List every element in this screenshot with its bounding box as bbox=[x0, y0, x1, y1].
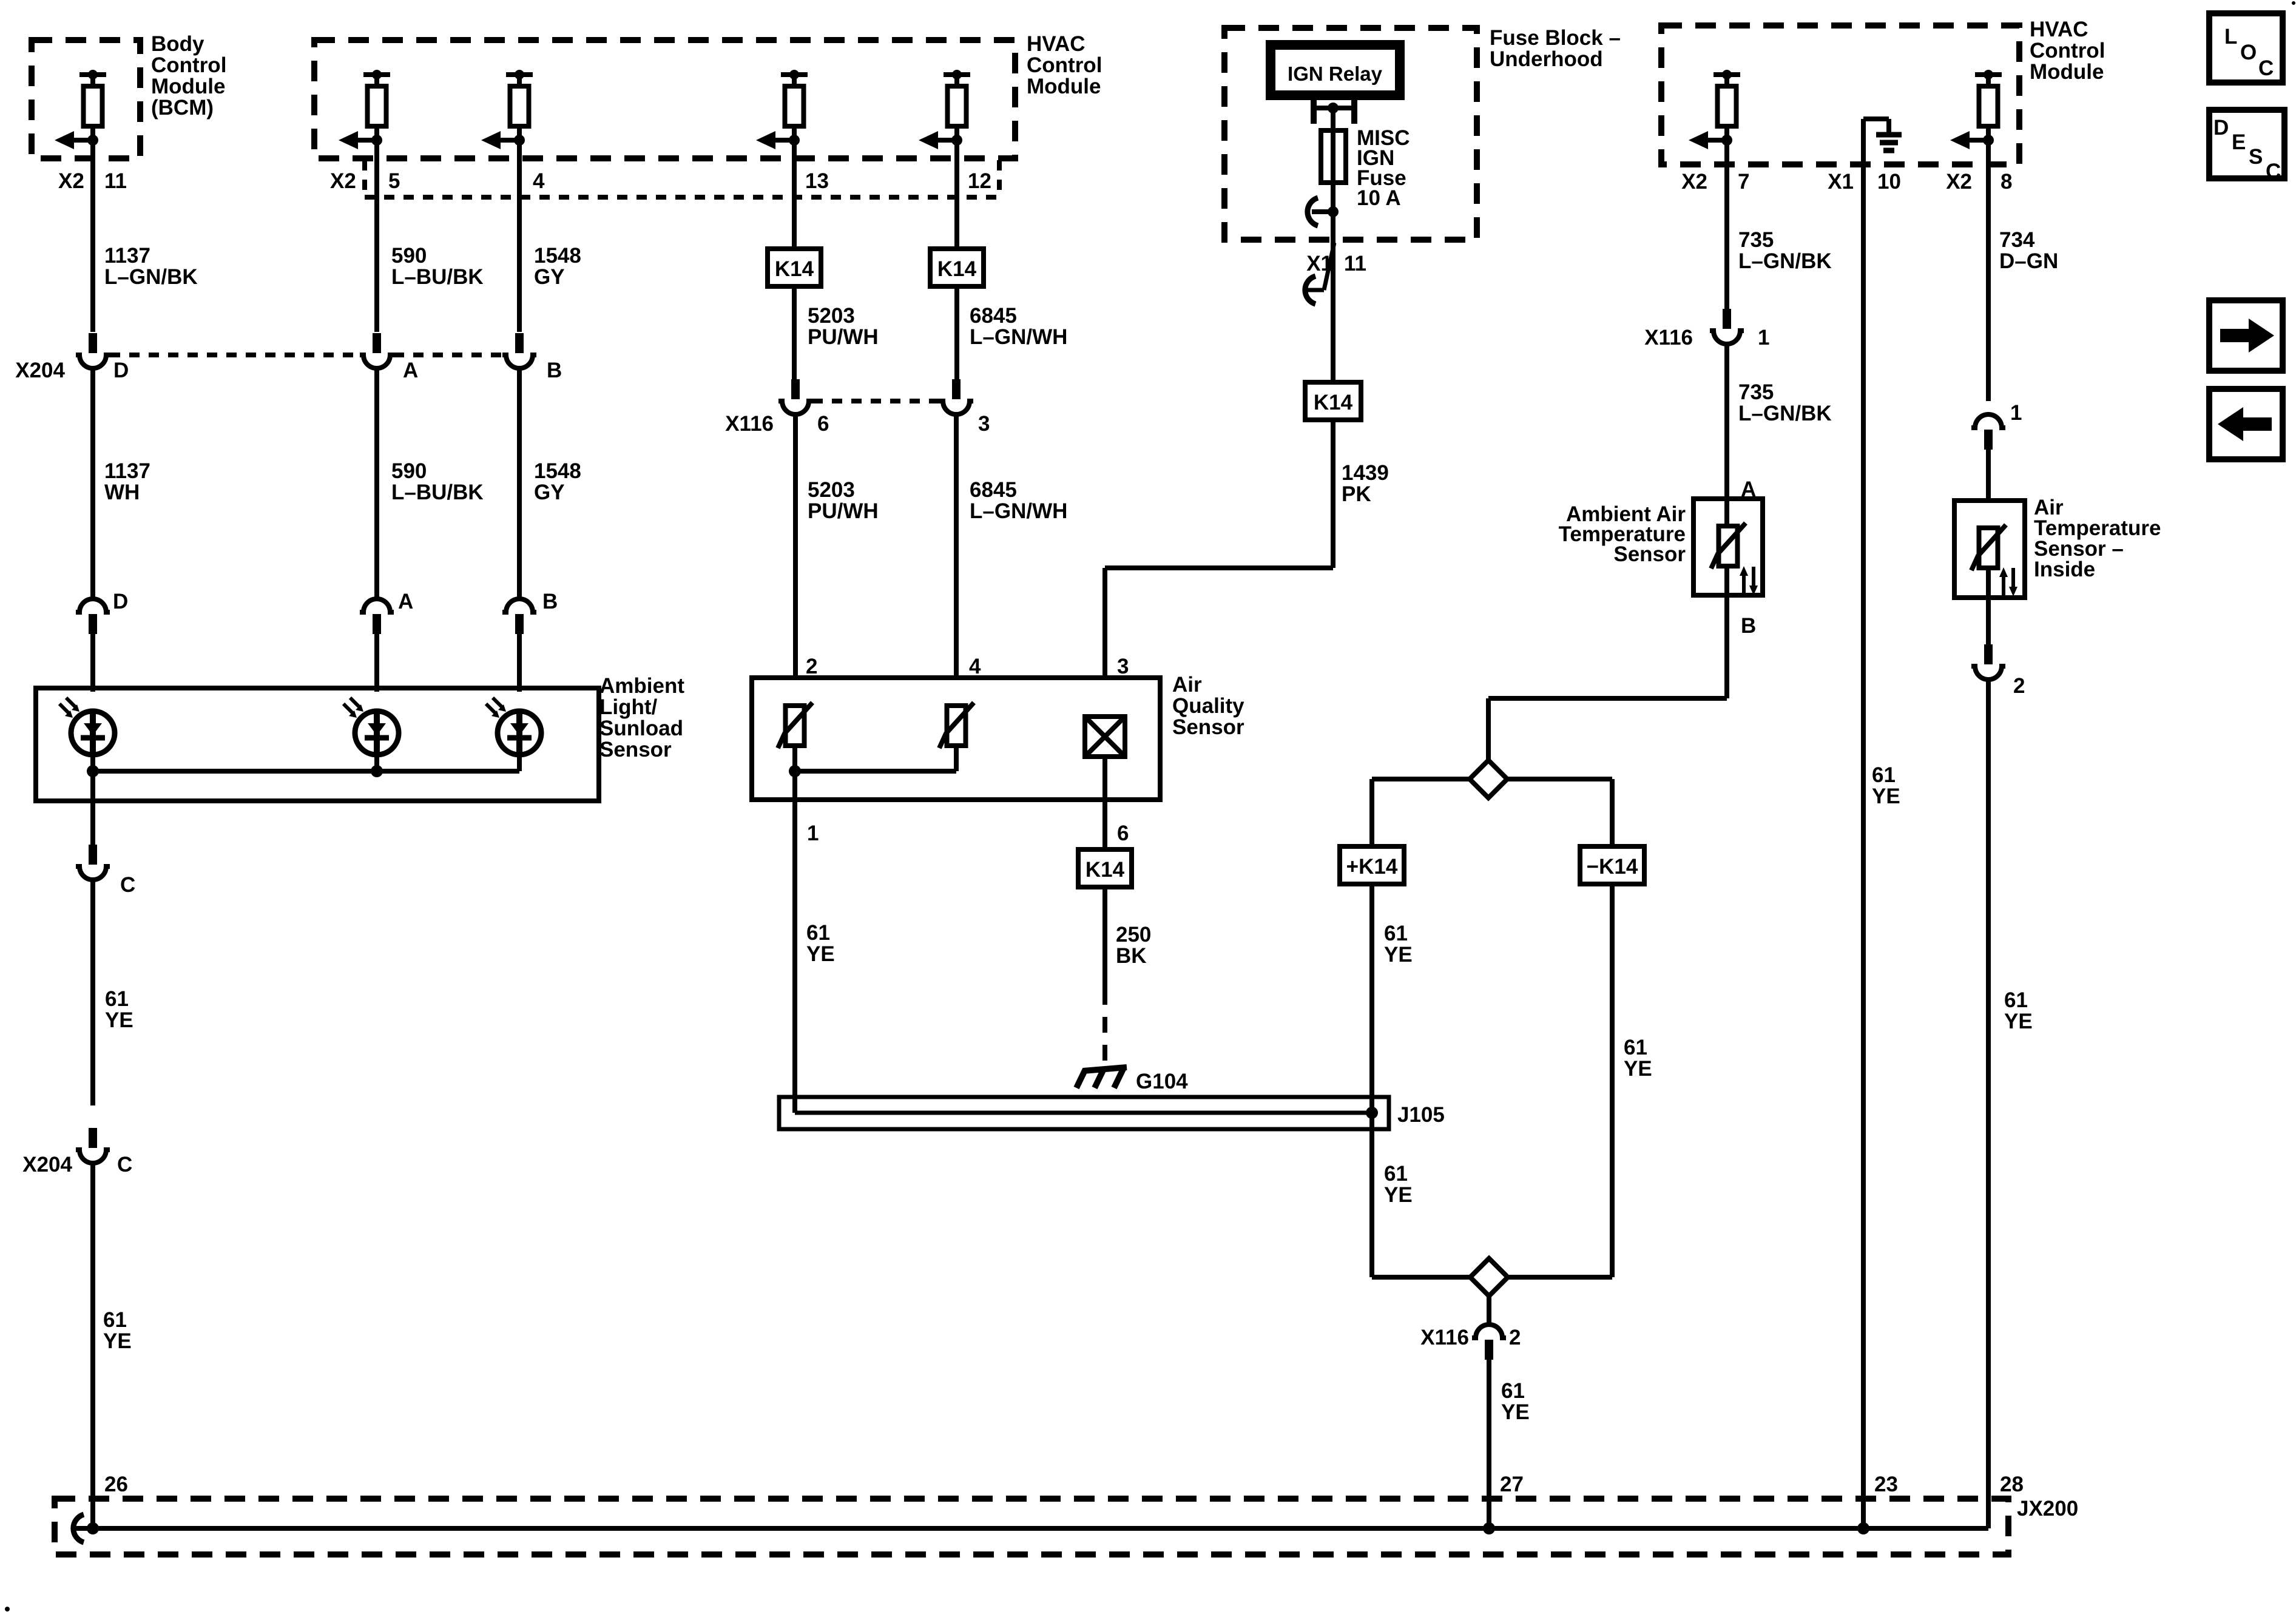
svg-text:S: S bbox=[2249, 145, 2263, 169]
svg-text:D: D bbox=[113, 590, 128, 613]
svg-text:C: C bbox=[120, 873, 135, 897]
svg-text:X2: X2 bbox=[1681, 170, 1707, 194]
svg-text:L: L bbox=[2224, 25, 2237, 49]
svg-text:26: 26 bbox=[104, 1473, 128, 1496]
svg-text:HVAC: HVAC bbox=[2030, 18, 2088, 41]
svg-text:Body: Body bbox=[151, 32, 204, 56]
svg-text:+K14: +K14 bbox=[1346, 855, 1398, 879]
svg-text:8: 8 bbox=[2001, 170, 2012, 194]
svg-text:C: C bbox=[2258, 56, 2274, 80]
svg-text:10: 10 bbox=[1877, 170, 1901, 194]
svg-text:4: 4 bbox=[533, 169, 545, 193]
svg-text:61: 61 bbox=[105, 987, 129, 1011]
svg-text:10 A: 10 A bbox=[1357, 186, 1401, 210]
svg-text:YE: YE bbox=[1872, 785, 1900, 808]
svg-text:X204: X204 bbox=[22, 1153, 72, 1176]
svg-text:L–BU/BK: L–BU/BK bbox=[391, 481, 484, 504]
svg-text:X2: X2 bbox=[330, 169, 356, 193]
svg-text:X116: X116 bbox=[1420, 1326, 1469, 1349]
svg-text:D: D bbox=[2213, 116, 2229, 140]
svg-text:Control: Control bbox=[1027, 53, 1102, 77]
svg-text:1137: 1137 bbox=[104, 244, 150, 268]
svg-text:2: 2 bbox=[1509, 1326, 1521, 1349]
svg-text:Air: Air bbox=[1172, 673, 1202, 697]
svg-text:3: 3 bbox=[978, 412, 990, 436]
svg-text:E: E bbox=[2232, 130, 2246, 154]
svg-text:2: 2 bbox=[806, 655, 817, 678]
svg-text:B: B bbox=[1741, 614, 1756, 638]
svg-text:YE: YE bbox=[103, 1329, 132, 1353]
svg-text:734: 734 bbox=[1999, 228, 2035, 252]
svg-text:11: 11 bbox=[1344, 252, 1366, 275]
svg-text:2: 2 bbox=[2013, 674, 2025, 698]
svg-text:Sensor: Sensor bbox=[1172, 715, 1244, 739]
svg-text:B: B bbox=[542, 590, 558, 613]
svg-text:J105: J105 bbox=[1397, 1103, 1445, 1127]
svg-text:Control: Control bbox=[151, 53, 226, 77]
svg-text:C: C bbox=[117, 1153, 132, 1176]
svg-text:−K14: −K14 bbox=[1587, 855, 1638, 879]
svg-text:28: 28 bbox=[2000, 1473, 2024, 1496]
svg-text:X2: X2 bbox=[1946, 170, 1972, 194]
svg-text:PU/WH: PU/WH bbox=[808, 325, 879, 349]
svg-text:3: 3 bbox=[1117, 655, 1129, 678]
svg-text:O: O bbox=[2240, 41, 2257, 64]
svg-text:4: 4 bbox=[969, 655, 981, 678]
svg-text:1: 1 bbox=[807, 822, 819, 845]
svg-text:YE: YE bbox=[1501, 1400, 1530, 1424]
svg-text:Sensor: Sensor bbox=[1613, 542, 1686, 566]
svg-text:Quality: Quality bbox=[1172, 694, 1244, 718]
svg-text:6: 6 bbox=[1117, 822, 1129, 845]
svg-text:5203: 5203 bbox=[808, 304, 855, 328]
svg-text:A: A bbox=[398, 590, 413, 613]
svg-text:61: 61 bbox=[1624, 1036, 1647, 1059]
svg-text:PK: PK bbox=[1342, 482, 1371, 506]
svg-text:61: 61 bbox=[103, 1308, 127, 1332]
svg-text:6845: 6845 bbox=[970, 478, 1017, 502]
svg-text:590: 590 bbox=[391, 244, 427, 268]
svg-text:1439: 1439 bbox=[1342, 461, 1389, 485]
svg-text:Module: Module bbox=[2030, 60, 2104, 84]
svg-text:Light/: Light/ bbox=[599, 695, 658, 719]
svg-text:YE: YE bbox=[1624, 1057, 1652, 1081]
svg-text:735: 735 bbox=[1738, 380, 1774, 404]
svg-text:61: 61 bbox=[1872, 763, 1896, 787]
svg-text:GY: GY bbox=[534, 265, 565, 289]
svg-text:YE: YE bbox=[105, 1008, 133, 1032]
svg-text:12: 12 bbox=[968, 169, 991, 193]
svg-text:IGN Relay: IGN Relay bbox=[1288, 62, 1383, 85]
svg-text:X116: X116 bbox=[1644, 326, 1693, 349]
svg-text:61: 61 bbox=[2004, 988, 2028, 1012]
svg-text:Inside: Inside bbox=[2034, 558, 2095, 581]
svg-text:Sunload: Sunload bbox=[599, 717, 683, 740]
svg-text:1: 1 bbox=[2010, 401, 2022, 425]
svg-text:1548: 1548 bbox=[534, 459, 581, 483]
svg-text:61: 61 bbox=[806, 921, 830, 945]
svg-text:Module: Module bbox=[1027, 75, 1101, 98]
svg-text:1137: 1137 bbox=[104, 459, 150, 483]
svg-text:61: 61 bbox=[1501, 1379, 1525, 1403]
svg-text:Control: Control bbox=[2030, 39, 2105, 62]
svg-text:X204: X204 bbox=[15, 359, 65, 382]
svg-text:Ambient: Ambient bbox=[599, 674, 684, 698]
svg-text:5: 5 bbox=[388, 169, 400, 193]
svg-text:BK: BK bbox=[1116, 944, 1147, 968]
svg-text:Sensor: Sensor bbox=[599, 738, 672, 761]
svg-text:Fuse Block –: Fuse Block – bbox=[1490, 26, 1621, 50]
svg-text:WH: WH bbox=[104, 481, 140, 504]
svg-text:L–GN/WH: L–GN/WH bbox=[970, 499, 1067, 523]
svg-text:Underhood: Underhood bbox=[1490, 47, 1603, 71]
svg-text:A: A bbox=[403, 359, 418, 382]
svg-text:YE: YE bbox=[1384, 1183, 1413, 1207]
svg-text:G104: G104 bbox=[1136, 1070, 1188, 1093]
svg-text:1548: 1548 bbox=[534, 244, 581, 268]
svg-text:1: 1 bbox=[1758, 326, 1769, 349]
svg-text:YE: YE bbox=[1384, 943, 1413, 967]
svg-text:L–GN/WH: L–GN/WH bbox=[970, 325, 1067, 349]
svg-text:61: 61 bbox=[1384, 1162, 1408, 1186]
svg-text:6: 6 bbox=[817, 412, 829, 436]
svg-text:YE: YE bbox=[2004, 1010, 2033, 1033]
svg-text:590: 590 bbox=[391, 459, 427, 483]
svg-text:(BCM): (BCM) bbox=[151, 96, 214, 120]
svg-text:YE: YE bbox=[806, 942, 835, 966]
svg-text:L–GN/BK: L–GN/BK bbox=[104, 265, 198, 289]
svg-text:23: 23 bbox=[1874, 1473, 1898, 1496]
svg-text:13: 13 bbox=[805, 169, 829, 193]
svg-text:HVAC: HVAC bbox=[1027, 32, 1086, 56]
svg-text:D: D bbox=[113, 359, 129, 382]
svg-text:250: 250 bbox=[1116, 923, 1151, 947]
svg-text:D–GN: D–GN bbox=[1999, 249, 2058, 273]
svg-text:6845: 6845 bbox=[970, 304, 1017, 328]
svg-text:L–GN/BK: L–GN/BK bbox=[1738, 402, 1832, 425]
svg-text:7: 7 bbox=[1738, 170, 1749, 194]
svg-text:X1: X1 bbox=[1828, 170, 1854, 194]
svg-text:L–BU/BK: L–BU/BK bbox=[391, 265, 484, 289]
svg-text:Module: Module bbox=[151, 75, 225, 98]
svg-text:L–GN/BK: L–GN/BK bbox=[1738, 249, 1832, 273]
svg-text:5203: 5203 bbox=[808, 478, 855, 502]
svg-text:C: C bbox=[2266, 160, 2281, 183]
svg-text:27: 27 bbox=[1500, 1473, 1524, 1496]
svg-text:X116: X116 bbox=[725, 412, 774, 436]
svg-text:K14: K14 bbox=[1086, 858, 1125, 882]
svg-text:B: B bbox=[547, 359, 562, 382]
svg-text:X2: X2 bbox=[58, 169, 84, 193]
svg-text:735: 735 bbox=[1738, 228, 1774, 252]
svg-text:PU/WH: PU/WH bbox=[808, 499, 879, 523]
svg-text:GY: GY bbox=[534, 481, 565, 504]
svg-text:61: 61 bbox=[1384, 922, 1408, 945]
svg-text:K14: K14 bbox=[775, 257, 814, 281]
svg-text:K14: K14 bbox=[1314, 391, 1353, 414]
svg-text:JX200: JX200 bbox=[2017, 1497, 2078, 1520]
svg-text:11: 11 bbox=[104, 169, 127, 193]
svg-text:K14: K14 bbox=[937, 257, 977, 281]
